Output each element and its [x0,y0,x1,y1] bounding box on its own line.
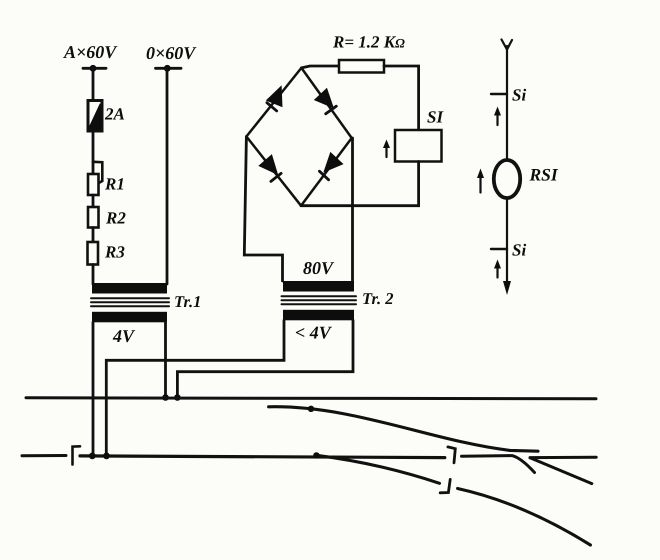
arrow at RSI coil [477,169,484,193]
wire bridge top to resistor R [301,66,339,68]
svg-text:Tr.1: Tr.1 [174,292,201,311]
wire Tr.1 secondary left to bottom rail [92,322,95,456]
curve B diverging rail lower [316,455,439,483]
relay coil SI [395,108,444,162]
arrow lower Si [494,260,501,278]
wire RSI vertical [506,46,508,161]
svg-text:0×60V: 0×60V [146,43,197,63]
svg-text:Tr. 2: Tr. 2 [362,289,393,308]
diode D4 lower-right [317,152,344,180]
svg-text:80V: 80V [303,258,335,278]
top rail [26,398,596,399]
wire bridge left vertex to Tr.2 primary [244,137,282,282]
arrow upper Si [494,107,501,126]
svg-text:< 4V: < 4V [295,323,333,343]
insulated joint middle [448,447,455,463]
wire fuse to R1 [92,131,95,174]
svg-text:Si: Si [512,86,526,105]
transformer Tr.1 [91,283,201,346]
wire Tr.2 secondary right to top rail [177,320,353,397]
node bottom rail junction 1 [89,453,96,460]
insulated joint left [73,446,81,464]
wire R2 to R3 [92,228,95,243]
insulated joint curve B [440,479,450,492]
bottom rail left stub [22,454,66,457]
arrowhead RSI line bottom [503,281,511,295]
node curve A dot [308,406,314,412]
fuse 2A [88,101,125,132]
bottom rail after joint [462,456,535,473]
svg-text:R1: R1 [104,175,125,194]
node bottom rail junction 2 [103,453,110,460]
svg-text:Si: Si [512,241,526,260]
terminal 0x60V [146,43,197,72]
wire Tr.1 secondary right to top rail [164,322,167,397]
wire resistor R to SI coil [384,66,419,130]
wire hook above R1 [93,162,102,184]
node Tr.1 top rail junction [162,394,169,401]
bridge rectifier arms [246,68,351,206]
Si contact upper [491,86,526,105]
terminal A x60V [63,42,118,72]
frog right rail [530,456,596,459]
transformer Tr.2 [282,258,394,343]
svg-text:R3: R3 [104,243,125,262]
wire R3 to Tr.1 primary [92,265,95,285]
wire R1 to R2 [92,195,95,207]
svg-text:2A: 2A [104,105,125,124]
svg-text:R2: R2 [105,209,126,228]
wire terminal A to fuse [92,68,95,100]
svg-text:R= 1.2 KΩ: R= 1.2 KΩ [332,33,405,52]
resistor R3 [88,242,126,265]
bottom rail main [80,456,445,458]
svg-text:RSI: RSI [529,165,559,185]
svg-text:SI: SI [427,108,444,127]
diode D3 lower-left [258,154,285,181]
resistor R1 [88,174,125,195]
V mark top [502,40,513,50]
frog diverging rail [530,458,592,484]
diode D2 upper-right [314,88,341,115]
relay RSI coil circle [494,160,520,198]
resistor R2 [88,207,126,228]
wire bridge right vertex to Tr.2 primary [351,138,354,281]
curve A diverging rail upper [269,407,538,451]
svg-text:4V: 4V [112,326,136,346]
node curve B dot [313,452,319,458]
Si contact lower [491,241,526,260]
wire Tr.2 secondary left to bottom rail [106,320,284,456]
diode D1 upper-left [266,82,290,111]
arrow at SI coil [383,140,390,158]
svg-text:A×60V: A×60V [63,42,118,62]
curve B after joint [458,489,591,546]
node Tr.2 top rail junction [174,394,181,401]
wire SI to bridge bottom [301,162,419,206]
wire terminal 0 to Tr.1 primary [166,68,169,284]
resistor R=1.2K [332,33,405,73]
